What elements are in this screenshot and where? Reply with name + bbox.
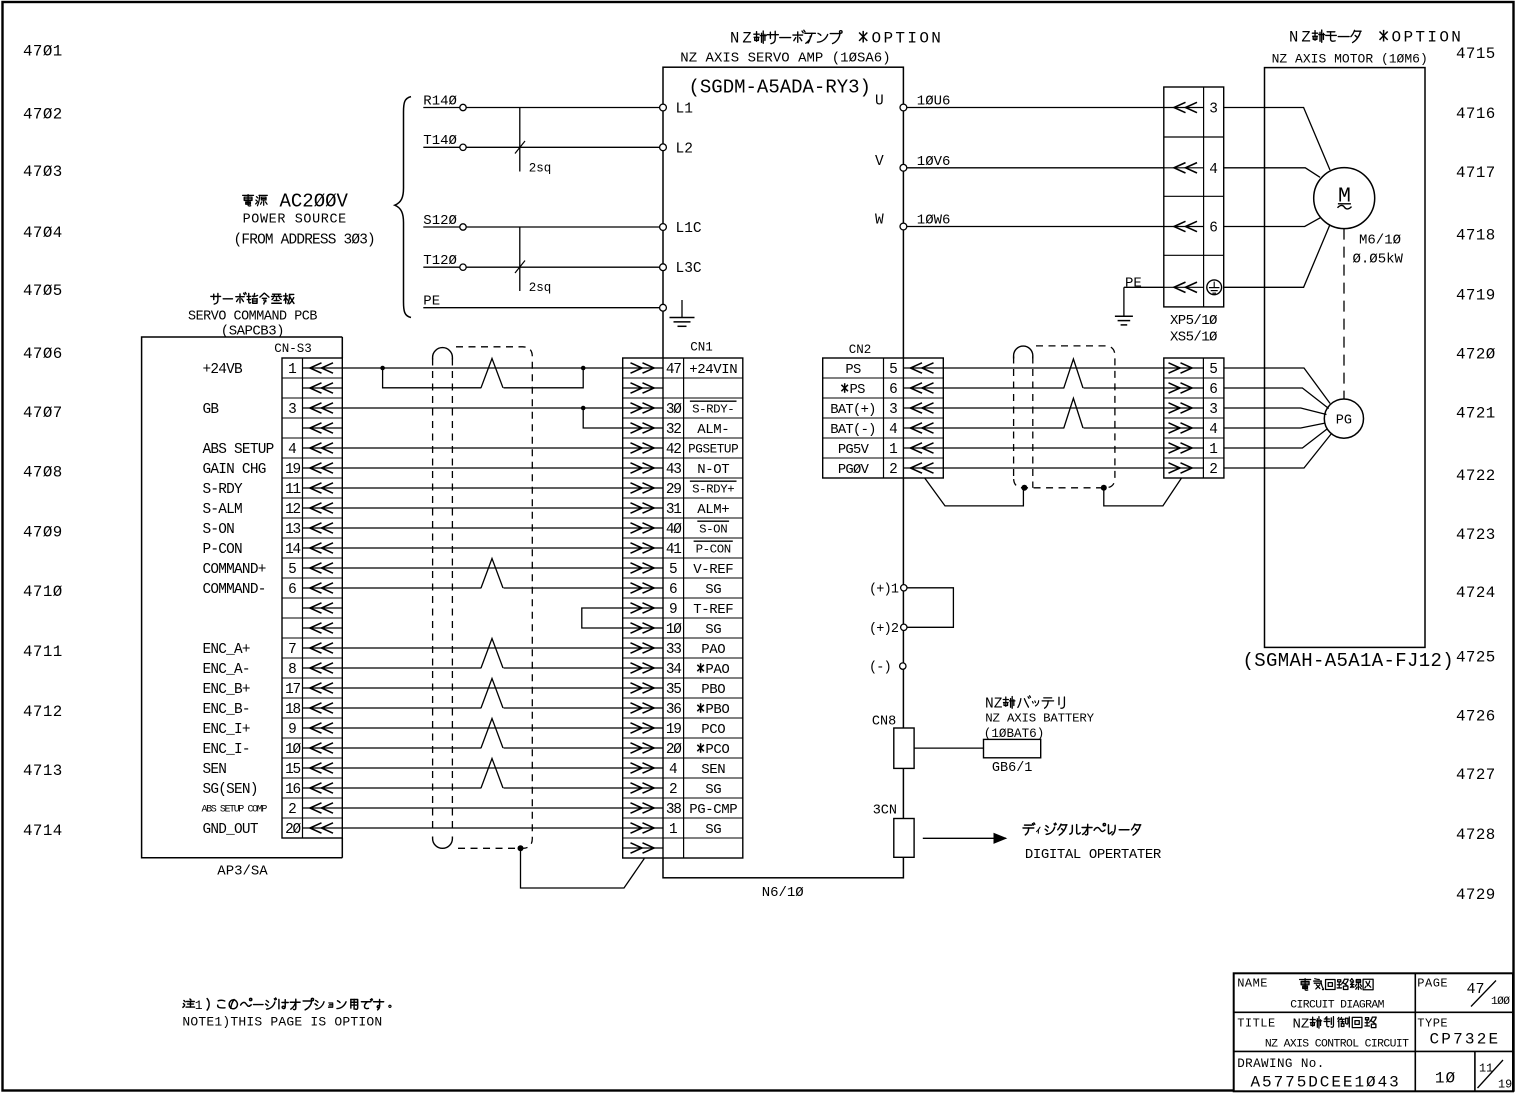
CN1 row pin - spare: [623, 847, 663, 849]
wires XP to motor M: [1224, 108, 1330, 171]
label 電源 AC200V: [243, 195, 254, 206]
twisted pair symbols (encoder cable): [1064, 359, 1083, 388]
svg-text:BAT(+): BAT(+): [830, 402, 875, 418]
svg-text:DRAWING No.: DRAWING No.: [1237, 1057, 1325, 1071]
wire T14Ø to servo amp: [423, 146, 460, 148]
CN1 row pin 5 V-REF: [623, 567, 663, 569]
svg-text:PAO: PAO: [701, 642, 725, 658]
svg-text:8: 8: [288, 662, 297, 678]
CN1 row pin 31 ALM+: [623, 507, 663, 509]
svg-text:A5775DCEE1Ø43: A5775DCEE1Ø43: [1251, 1074, 1401, 1092]
svg-text:SG: SG: [705, 822, 721, 838]
svg-text:PS: PS: [845, 363, 861, 378]
svg-text:(SGDM-A5ADA-RY3): (SGDM-A5ADA-RY3): [689, 77, 871, 99]
title block: [1234, 973, 1513, 1091]
svg-text:3: 3: [1209, 402, 1218, 418]
svg-text:2: 2: [669, 782, 678, 798]
wire CN2.5 to XS5/10.5: [943, 367, 1164, 369]
connector XS5/10 (encoder): [1164, 358, 1224, 478]
wire S-RDY/S-RDY+: [342, 487, 622, 489]
shield cable (CN-S3 to CN1) dashed: [432, 359, 434, 834]
svg-text:6: 6: [669, 582, 678, 598]
motor M1 circle: [1314, 168, 1375, 229]
svg-text:CN8: CN8: [872, 715, 896, 730]
svg-text:S-RDY-: S-RDY-: [692, 402, 734, 416]
svg-text:CN2: CN2: [849, 343, 872, 357]
svg-text:+24VB: +24VB: [203, 362, 244, 378]
wire 1ØW6 amp to motor connector: [907, 226, 1164, 228]
CN-S3 row spare pin -: [303, 387, 343, 389]
svg-text:4: 4: [669, 762, 678, 778]
svg-text:5: 5: [288, 562, 297, 578]
XS pin 2: [1164, 467, 1204, 469]
svg-text:(+)1: (+)1: [869, 582, 899, 597]
CN1 row pin 10 SG: [623, 627, 663, 629]
CN1 row pin 38 PG-CMP: [623, 807, 663, 809]
CN-S3 row spare pin -: [303, 627, 343, 629]
CN1 row pin 4 SEN: [623, 767, 663, 769]
svg-text:OPTION: OPTION: [1392, 29, 1464, 47]
arrow to digital operator: [923, 837, 1006, 839]
svg-text:DIGITAL OPERTATER: DIGITAL OPERTATER: [1025, 847, 1162, 863]
wire 1ØU6 amp to motor connector: [907, 107, 1164, 109]
CN-S3 row GAIN CHG pin 19: [303, 467, 343, 469]
svg-text:PG5V: PG5V: [838, 443, 870, 458]
svg-text:34: 34: [666, 662, 681, 678]
svg-text:36: 36: [666, 702, 681, 718]
wire ENC_I+/PCO: [342, 727, 622, 729]
svg-text:4729: 4729: [1456, 886, 1496, 904]
svg-text:3Ø: 3Ø: [666, 402, 682, 418]
terminals U V W: [900, 104, 907, 111]
XS pin 3: [1164, 407, 1204, 409]
svg-text:1ØØ: 1ØØ: [1491, 996, 1510, 1008]
svg-text:T-REF: T-REF: [693, 602, 733, 618]
shield drain wire to CN1: [521, 848, 645, 888]
svg-text:38: 38: [666, 802, 681, 818]
svg-text:47Ø4: 47Ø4: [23, 224, 63, 242]
wires XS to PG: [1224, 368, 1330, 404]
svg-text:XS5/1Ø: XS5/1Ø: [1170, 330, 1217, 346]
svg-text:1ØU6: 1ØU6: [917, 94, 951, 110]
svg-text:NZ AXIS SERVO AMP (1ØSA6): NZ AXIS SERVO AMP (1ØSA6): [680, 51, 890, 67]
svg-text:2Ø: 2Ø: [285, 822, 301, 838]
svg-text:(FROM ADDRESS 3Ø3): (FROM ADDRESS 3Ø3): [234, 232, 375, 248]
shield drain dots: [1021, 485, 1027, 491]
CN-S3 row ENC_I- pin 10: [303, 747, 343, 749]
svg-text:1: 1: [195, 998, 203, 1013]
CN2 row *PS pin 6: [903, 387, 943, 389]
wire COMMAND-/SG (twisted pair lower): [342, 587, 481, 589]
svg-text:1Ø: 1Ø: [1435, 1069, 1456, 1087]
svg-text:M6/1Ø: M6/1Ø: [1359, 233, 1401, 249]
wire PE to servo amp: [423, 307, 660, 309]
svg-text:2: 2: [889, 462, 898, 478]
svg-text:47Ø3: 47Ø3: [23, 163, 63, 181]
CN1 row pin 6 SG: [623, 587, 663, 589]
svg-text:T12Ø: T12Ø: [423, 253, 457, 269]
svg-text:47Ø6: 47Ø6: [23, 345, 63, 363]
svg-text:W: W: [875, 213, 884, 229]
wire GAIN CHG/N-OT: [342, 467, 622, 469]
CN-S3 row ABS SETUP pin 4: [303, 447, 343, 449]
XP pin PE (circled ground): [1164, 286, 1204, 288]
wire ENC_B-/*PBO (twisted pair lower): [342, 707, 481, 709]
svg-text:PS: PS: [850, 383, 866, 398]
svg-text:4717: 4717: [1456, 164, 1496, 182]
svg-text:4: 4: [889, 422, 898, 438]
svg-text:4: 4: [1209, 162, 1218, 178]
shaft dashed M to PG: [1343, 229, 1345, 399]
svg-text:11: 11: [285, 482, 300, 498]
svg-text:ENC_B+: ENC_B+: [203, 682, 250, 698]
wire SEN/SEN: [342, 767, 622, 769]
junction dot GB: [581, 406, 586, 411]
svg-text:CP732E: CP732E: [1430, 1030, 1501, 1048]
svg-text:43: 43: [666, 462, 681, 478]
svg-text:CIRCUIT DIAGRAM: CIRCUIT DIAGRAM: [1290, 1000, 1384, 1012]
label サーボ指令基板: [211, 293, 221, 304]
junction dots +24VB: [380, 366, 385, 371]
svg-text:29: 29: [666, 482, 681, 498]
svg-text:2sq: 2sq: [529, 162, 552, 176]
svg-text:35: 35: [666, 682, 681, 698]
svg-text:471Ø: 471Ø: [23, 583, 63, 601]
wire ENC_A-/*PAO (twisted pair lower): [342, 667, 481, 669]
svg-text:COMMAND+: COMMAND+: [203, 562, 266, 578]
svg-text:1Ø: 1Ø: [666, 622, 682, 638]
svg-text:47Ø2: 47Ø2: [23, 105, 63, 123]
svg-text:N6/1Ø: N6/1Ø: [762, 885, 804, 901]
svg-text:1Ø: 1Ø: [285, 742, 301, 758]
svg-text:SERVO COMMAND PCB: SERVO COMMAND PCB: [188, 309, 317, 324]
CN1 row pin 42 PGSETUP: [623, 447, 663, 449]
svg-text:PE: PE: [1125, 276, 1142, 292]
wire R14Ø to servo amp: [423, 107, 460, 109]
svg-text:ENC_A-: ENC_A-: [203, 662, 250, 678]
CN-S3 row COMMAND+ pin 5: [303, 567, 343, 569]
wire 1ØV6 amp to motor connector: [907, 167, 1164, 169]
svg-text:L1C: L1C: [676, 221, 702, 237]
junction line 2sq (R/T): [519, 108, 521, 172]
wire CN2.1 to XS5/10.1: [943, 447, 1164, 449]
svg-text:BAT(-): BAT(-): [830, 422, 875, 438]
XP pin 4: [1164, 167, 1204, 169]
svg-text:PBO: PBO: [701, 682, 725, 698]
svg-text:4722: 4722: [1456, 467, 1496, 485]
CN1 row pin 29 S-RDY+: [623, 487, 663, 489]
svg-text:TITLE: TITLE: [1237, 1017, 1276, 1031]
svg-text:47Ø9: 47Ø9: [23, 524, 63, 542]
svg-text:PG-CMP: PG-CMP: [689, 802, 737, 818]
svg-text:PCO: PCO: [705, 742, 729, 758]
svg-text:4727: 4727: [1456, 766, 1496, 784]
svg-text:4723: 4723: [1456, 526, 1496, 544]
svg-text:S-ON: S-ON: [203, 522, 235, 538]
svg-text:19: 19: [666, 722, 681, 738]
svg-text:47: 47: [666, 362, 681, 378]
svg-text:S-ALM: S-ALM: [203, 502, 243, 518]
svg-text:NZ: NZ: [1293, 1016, 1310, 1032]
svg-text:PBO: PBO: [705, 702, 729, 718]
wire ABS SETUP COMP/PG-CMP: [342, 807, 622, 809]
svg-text:ENC_I+: ENC_I+: [203, 722, 250, 738]
svg-text:PG: PG: [1336, 413, 1352, 428]
svg-text:NZ: NZ: [985, 697, 1003, 713]
svg-text:NAME: NAME: [1237, 977, 1268, 991]
svg-text:PCO: PCO: [701, 722, 725, 738]
svg-text:31: 31: [666, 502, 681, 518]
svg-text:PAO: PAO: [705, 662, 729, 678]
svg-text:V: V: [875, 154, 884, 170]
wire ENC_B+/PBO: [342, 687, 622, 689]
ground (amp PE): [681, 300, 683, 318]
junction line 2sq (S/T): [519, 227, 521, 291]
svg-text:2Ø: 2Ø: [666, 742, 682, 758]
svg-text:OPTION: OPTION: [872, 30, 944, 48]
CN1 row pin 33 PAO: [623, 647, 663, 649]
svg-text:1ØW6: 1ØW6: [917, 213, 951, 229]
svg-text:+24VIN: +24VIN: [689, 362, 737, 378]
svg-text:6: 6: [1209, 221, 1218, 237]
XP pin 3: [1164, 107, 1204, 109]
svg-text:3: 3: [288, 402, 297, 418]
CN1 row pin 9 T-REF: [623, 607, 663, 609]
svg-text:3: 3: [889, 402, 898, 418]
svg-text:47Ø7: 47Ø7: [23, 404, 63, 422]
svg-text:ALM+: ALM+: [697, 502, 729, 518]
svg-text:NZ AXIS BATTERY: NZ AXIS BATTERY: [985, 712, 1094, 726]
svg-text:GB6/1: GB6/1: [992, 761, 1033, 776]
svg-text:SG(SEN): SG(SEN): [203, 782, 258, 798]
wire ENC_I-/*PCO (twisted pair lower): [342, 747, 481, 749]
svg-text:ALM-: ALM-: [697, 422, 729, 438]
svg-text:1: 1: [669, 822, 678, 838]
svg-text:6: 6: [288, 582, 297, 598]
shield drain junction dot: [518, 845, 524, 851]
svg-text:PAGE: PAGE: [1417, 977, 1448, 991]
CN-S3 row ENC_B- pin 18: [303, 707, 343, 709]
wire GB/S-RDY-: [342, 407, 622, 409]
CN-S3 row P-CON pin 14: [303, 547, 343, 549]
svg-text:1ØV6: 1ØV6: [917, 154, 951, 170]
svg-text:2: 2: [288, 802, 297, 818]
svg-text:4Ø: 4Ø: [666, 522, 682, 538]
svg-text:3: 3: [1209, 102, 1218, 118]
svg-text:COMMAND-: COMMAND-: [203, 582, 266, 598]
svg-text:GB: GB: [203, 402, 220, 418]
CN-S3 row ENC_B+ pin 17: [303, 687, 343, 689]
svg-text:47Ø1: 47Ø1: [23, 43, 63, 61]
wire CN2.4 to XS5/10.4: [943, 427, 1064, 429]
wire CN2.6 to XS5/10.6: [943, 387, 1064, 389]
wire +24VB loop branch: [383, 368, 482, 388]
svg-text:41: 41: [666, 542, 681, 558]
svg-text:14: 14: [285, 542, 300, 558]
svg-text:17: 17: [285, 682, 300, 698]
CN-S3 row +24VB pin 1: [303, 367, 343, 369]
svg-text:V-REF: V-REF: [693, 562, 733, 578]
svg-text:4728: 4728: [1456, 826, 1496, 844]
svg-text:4711: 4711: [23, 643, 63, 661]
svg-text:2: 2: [1209, 462, 1218, 478]
motor box NZ AXIS MOTOR (10M6): [1265, 68, 1426, 648]
svg-text:N-OT: N-OT: [697, 462, 729, 478]
svg-text:33: 33: [666, 642, 681, 658]
svg-text:6: 6: [1209, 382, 1218, 398]
CN2 row BAT(+) pin 3: [903, 407, 943, 409]
svg-text:4712: 4712: [23, 703, 63, 721]
svg-text:1: 1: [288, 362, 297, 378]
svg-text:P-CON: P-CON: [203, 542, 243, 558]
CN2 row BAT(-) pin 4: [903, 427, 943, 429]
svg-text:PE: PE: [423, 294, 440, 310]
CN-S3 row S-ON pin 13: [303, 527, 343, 529]
svg-text:SG: SG: [705, 582, 721, 598]
svg-text:T14Ø: T14Ø: [423, 133, 457, 149]
svg-text:PGSETUP: PGSETUP: [688, 442, 738, 456]
svg-text:(+)2: (+)2: [869, 622, 899, 637]
wire ABS SETUP/PGSETUP: [342, 447, 622, 449]
svg-text:NZ AXIS CONTROL CIRCUIT: NZ AXIS CONTROL CIRCUIT: [1265, 1038, 1409, 1050]
svg-text:4726: 4726: [1456, 707, 1496, 725]
svg-text:15: 15: [285, 762, 300, 778]
CN-S3 row GB pin 3: [303, 407, 343, 409]
CN1 row pin 47 +24VIN: [623, 367, 663, 369]
wire CN2.2 to XS5/10.2: [943, 467, 1164, 469]
svg-text:16: 16: [285, 782, 300, 798]
svg-text:18: 18: [285, 702, 300, 718]
svg-text:SG: SG: [705, 622, 721, 638]
CN-S3 row ENC_I+ pin 9: [303, 727, 343, 729]
wire GND_OUT/SG: [342, 827, 622, 829]
CN1 row pin 41 P-CON: [623, 547, 663, 549]
XP pin 6: [1164, 226, 1204, 228]
svg-text:13: 13: [285, 522, 300, 538]
svg-text:U: U: [875, 94, 884, 110]
CN1 row pin 20 *PCO: [623, 747, 663, 749]
svg-text:5: 5: [889, 362, 898, 378]
CN1 row pin 40 S-ON: [623, 527, 663, 529]
svg-text:6: 6: [889, 382, 898, 398]
svg-text:3CN: 3CN: [873, 804, 897, 819]
svg-text:4: 4: [288, 442, 297, 458]
svg-text:GND_OUT: GND_OUT: [203, 822, 259, 838]
svg-text:4721: 4721: [1456, 404, 1496, 422]
svg-text:AP3/SA: AP3/SA: [217, 864, 268, 880]
XS pin 6: [1164, 387, 1204, 389]
svg-text:9: 9: [288, 722, 297, 738]
wire SG(SEN)/SG (twisted pair lower): [342, 787, 481, 789]
svg-text:47Ø5: 47Ø5: [23, 282, 63, 300]
encoder PG circle: [1324, 399, 1363, 438]
CN-S3 row ENC_A- pin 8: [303, 667, 343, 669]
connector XP5/10 (motor power): [1164, 87, 1224, 307]
power source brace: [395, 97, 411, 318]
svg-text:19: 19: [1498, 1078, 1512, 1092]
svg-text:2sq: 2sq: [529, 281, 552, 295]
svg-text:ABS SETUP: ABS SETUP: [203, 442, 274, 458]
svg-text:CN1: CN1: [690, 340, 713, 354]
svg-text:L3C: L3C: [676, 261, 702, 277]
CN-S3 row ABS SETUP COMP pin 2: [303, 807, 343, 809]
XS pin 4: [1164, 427, 1204, 429]
svg-text:4716: 4716: [1456, 105, 1496, 123]
svg-text:TYPE: TYPE: [1417, 1017, 1448, 1031]
CN-S3 row S-ALM pin 12: [303, 507, 343, 509]
svg-text:S12Ø: S12Ø: [423, 213, 457, 229]
svg-text:AC2ØØV: AC2ØØV: [280, 191, 349, 213]
CN2 row PS pin 5: [903, 367, 943, 369]
wire CN2.3 to XS5/10.3: [943, 407, 1164, 409]
wire P-CON/P-CON: [342, 547, 622, 549]
svg-text:7: 7: [288, 642, 297, 658]
svg-text:POWER SOURCE: POWER SOURCE: [243, 212, 347, 227]
svg-text:4724: 4724: [1456, 584, 1496, 602]
svg-text:4719: 4719: [1456, 287, 1496, 305]
shield drain wire left (to CN2): [925, 478, 1024, 506]
shield drain wire right (to XS): [1104, 478, 1182, 506]
XS pin 1: [1164, 447, 1204, 449]
wire GB branch to ALM-: [583, 408, 623, 428]
CN-S3 row spare pin -: [303, 427, 343, 429]
CN1 row pin 2 SG: [623, 787, 663, 789]
terminals L1 L2 L1C L3C PE on amp: [660, 104, 667, 111]
svg-text:4725: 4725: [1456, 648, 1496, 666]
svg-text:ENC_A+: ENC_A+: [203, 642, 250, 658]
wire ENC_A+/PAO: [342, 647, 622, 649]
CN1 row pin 36 *PBO: [623, 707, 663, 709]
CN-S3 row SG(SEN) pin 16: [303, 787, 343, 789]
svg-text:4713: 4713: [23, 762, 63, 780]
svg-text:SEN: SEN: [203, 762, 227, 778]
svg-text:L1: L1: [676, 102, 693, 118]
svg-text:NZ: NZ: [730, 30, 755, 48]
CN1 row pin 43 N-OT: [623, 467, 663, 469]
svg-text:9: 9: [669, 602, 678, 618]
svg-text:4: 4: [1209, 422, 1218, 438]
svg-text:SEN: SEN: [701, 762, 725, 778]
svg-text:5: 5: [669, 562, 678, 578]
CN-S3 row GND_OUT pin 20: [303, 827, 343, 829]
CN1 row pin - spare: [623, 387, 663, 389]
wire T-REF/SG bracket: [582, 608, 623, 628]
svg-text:4715: 4715: [1456, 45, 1496, 63]
svg-text:4714: 4714: [23, 822, 63, 840]
svg-text:1: 1: [889, 442, 898, 458]
svg-text:32: 32: [666, 422, 681, 438]
svg-text:R14Ø: R14Ø: [423, 93, 457, 109]
CN-S3 row ENC_A+ pin 7: [303, 647, 343, 649]
twisted pair symbols (middle cable): [481, 359, 503, 388]
svg-text:P-CON: P-CON: [696, 542, 731, 556]
svg-text:(SGMAH-A5A1A-FJ12): (SGMAH-A5A1A-FJ12): [1243, 650, 1455, 672]
svg-text:NZ: NZ: [1289, 29, 1314, 47]
svg-text:CN-S3: CN-S3: [274, 342, 312, 356]
wire S-ALM/ALM+: [342, 507, 622, 509]
wire PE to XP with ground: [1124, 286, 1164, 288]
CN-S3 row spare pin -: [303, 607, 343, 609]
svg-text:(-): (-): [869, 661, 891, 676]
wire COMMAND+/V-REF: [342, 567, 622, 569]
svg-text:SG: SG: [705, 782, 721, 798]
svg-text:S-RDY: S-RDY: [203, 482, 244, 498]
CN1 row pin 32 ALM-: [623, 427, 663, 429]
svg-text:NOTE1)THIS PAGE IS OPTION: NOTE1)THIS PAGE IS OPTION: [182, 1014, 382, 1029]
svg-text:L2: L2: [676, 141, 693, 157]
svg-text:47Ø8: 47Ø8: [23, 464, 63, 482]
CN1 row pin 35 PBO: [623, 687, 663, 689]
